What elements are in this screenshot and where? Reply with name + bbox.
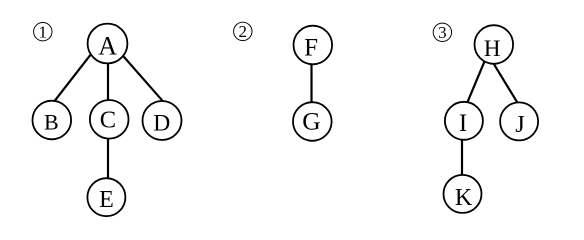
svg-text:B: B xyxy=(44,110,59,135)
node J xyxy=(500,102,538,140)
node E xyxy=(87,178,125,216)
node B xyxy=(33,101,72,140)
svg-text:D: D xyxy=(153,111,170,137)
svg-text:3: 3 xyxy=(438,23,447,42)
svg-text:A: A xyxy=(98,32,117,61)
node K xyxy=(444,175,482,213)
wire edge A-B xyxy=(54,55,91,102)
wire edge A-D xyxy=(124,57,166,105)
wire edge H-I xyxy=(466,61,484,105)
svg-text:I: I xyxy=(459,110,467,137)
wire edge F-G xyxy=(310,61,312,105)
node C xyxy=(90,100,129,139)
wire edge A-C xyxy=(107,59,109,104)
label circled 2 xyxy=(234,22,252,41)
node F xyxy=(294,26,333,65)
node H xyxy=(475,25,514,64)
svg-text:C: C xyxy=(100,107,116,134)
svg-text:2: 2 xyxy=(239,22,248,41)
wire edge C-E xyxy=(107,135,109,181)
svg-text:E: E xyxy=(99,187,114,213)
svg-text:G: G xyxy=(302,106,320,135)
wire edge I-K xyxy=(461,136,463,178)
svg-text:1: 1 xyxy=(39,22,48,41)
svg-text:H: H xyxy=(484,36,501,61)
svg-text:J: J xyxy=(515,111,525,138)
node G xyxy=(293,102,332,141)
label circled 3 xyxy=(433,23,451,42)
svg-text:F: F xyxy=(304,35,318,62)
node A xyxy=(88,24,128,64)
label circled 1 xyxy=(34,22,52,41)
node D xyxy=(143,101,182,140)
svg-text:K: K xyxy=(455,185,473,211)
node I xyxy=(445,102,483,140)
wire edge H-J xyxy=(492,61,519,105)
